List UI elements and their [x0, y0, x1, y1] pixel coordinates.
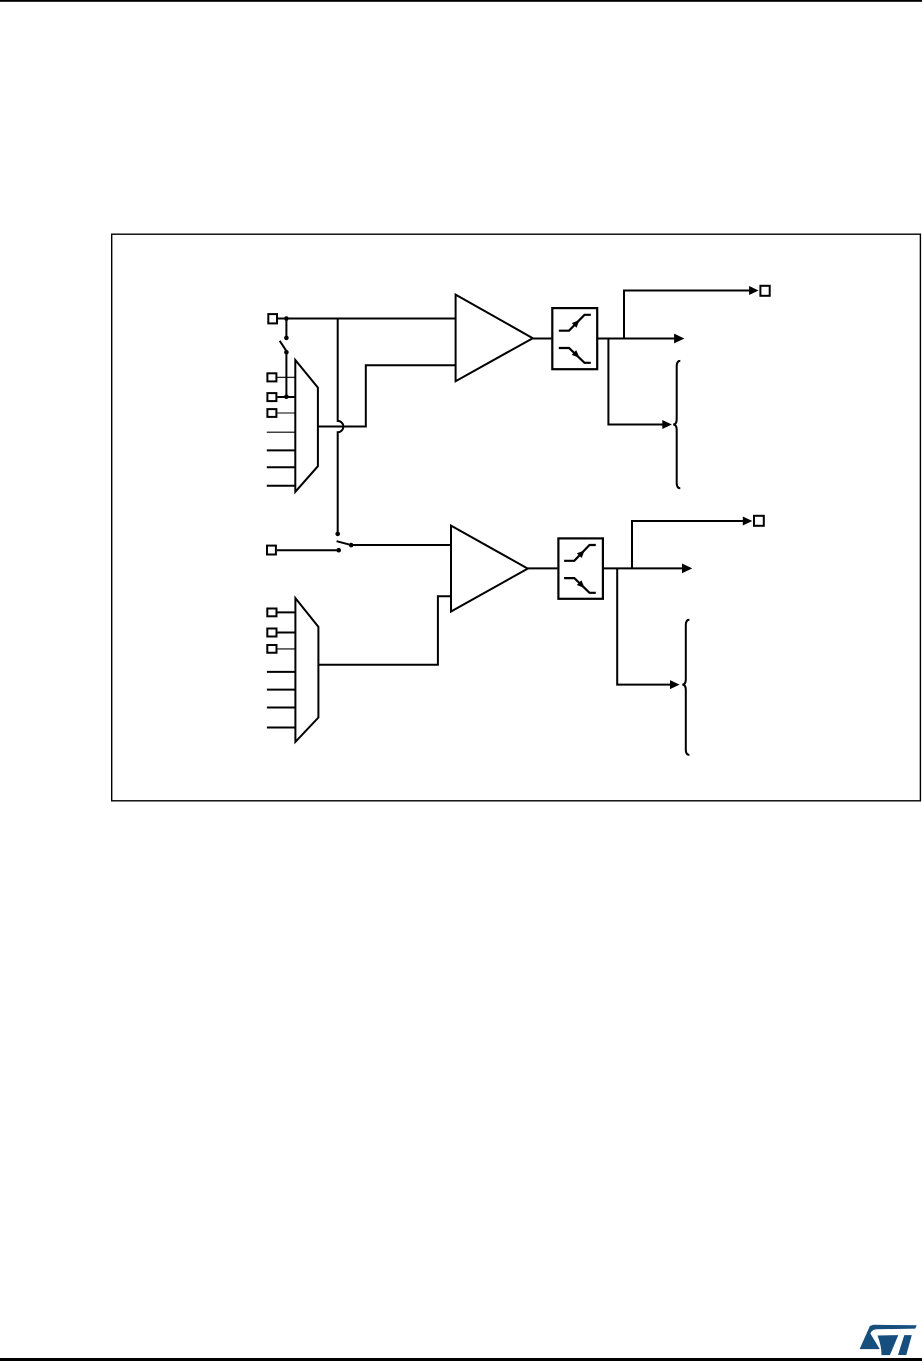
wire COMP2 output [528, 567, 558, 569]
wire COMP2 down branch [617, 568, 670, 684]
wire U2 output [603, 567, 683, 569]
multiplexer MUX2 [295, 598, 318, 742]
node junction dot on mux input B [284, 394, 289, 399]
brace COMP1 destinations [673, 361, 680, 488]
ST logo swoosh S [860, 1325, 917, 1349]
wire COMP2 plus link (vertical with hop) [338, 319, 344, 534]
arrow COMP1 internal output [674, 334, 684, 344]
wire mux2 input E [267, 689, 296, 691]
wire mux1 input G [267, 485, 296, 487]
brace COMP2 destinations [682, 620, 689, 755]
pin mux1 input C pad [267, 409, 276, 417]
wire COMP1 output [533, 338, 552, 340]
wire mux2 input D [267, 671, 296, 673]
pin mux2 input B pad [267, 629, 276, 637]
switch SW2 blade [337, 541, 351, 545]
switch SW1 upper contact dot [284, 336, 289, 341]
wire COMP1 output to pad (up branch) [624, 291, 750, 339]
arrow to COMP1 output pad [749, 286, 759, 295]
falling hysteresis curve [559, 348, 591, 363]
wire mux2 input A [278, 611, 296, 613]
wire mux1 input E [267, 449, 296, 451]
switch SW1 blade [280, 341, 287, 352]
op-amp COMP1 [456, 295, 533, 382]
falling hysteresis curve 2 [564, 578, 596, 593]
pin mux1 input A pad [267, 373, 276, 381]
wire mux1 output to COMP1 minus input [318, 365, 456, 426]
hysteresis block U2 [558, 538, 603, 598]
node junction dot [284, 316, 289, 321]
arrow COMP2 internal output [682, 564, 692, 574]
wire mux1 input D [267, 431, 296, 433]
switch SW1 lower contact dot [284, 350, 289, 355]
page footer rule [0, 1358, 922, 1361]
ST logo S lower stroke [878, 1335, 899, 1355]
rising hysteresis curve [559, 315, 591, 331]
hysteresis block U1 [552, 308, 597, 369]
wire mux1 input F [267, 466, 296, 468]
wire switch lower lead [285, 352, 287, 396]
wire mux2 input B [278, 632, 296, 634]
pin COMP2 output pad [754, 516, 764, 526]
wire COMP2 output to pad (up branch) [632, 521, 744, 568]
wire COMP1 down branch [608, 339, 663, 425]
falling curve arrowhead [572, 350, 580, 358]
wire switch upper lead [285, 319, 287, 338]
multiplexer MUX1 [295, 360, 318, 492]
switch SW2 upper contact dot [335, 532, 340, 537]
wire mux2 input F [267, 707, 296, 709]
pin PA3 (COMP2 plus input pad) [267, 546, 276, 555]
rising curve arrowhead [572, 320, 580, 328]
wire mux1 input A [277, 376, 295, 378]
rising hysteresis curve 2 [564, 545, 596, 561]
arrow to COMP2 output pad [743, 517, 753, 526]
page header rule [0, 0, 922, 2]
arrow COMP2 down branch [670, 680, 680, 689]
wire SW2 to COMP2 plus input [351, 544, 451, 546]
pin mux2 input C pad [267, 645, 276, 653]
switch SW2 lower contact dot [336, 548, 341, 553]
wire mux2 output to COMP2 minus input [318, 596, 451, 664]
switch SW2 pivot dot [349, 543, 354, 548]
wire mux1 input C [277, 412, 295, 414]
wire mux1 input B [277, 396, 295, 398]
op-amp COMP2 [451, 526, 528, 612]
wire mux2 input G [267, 727, 296, 729]
ST logo T slash [898, 1335, 912, 1355]
pin PA0 (COMP1 plus input pad) [268, 314, 277, 323]
falling curve arrowhead 2 [577, 580, 585, 588]
rising curve arrowhead 2 [577, 550, 585, 558]
wire pin to switch SW2 [277, 549, 339, 551]
wire pin to COMP1 plus input [278, 318, 456, 320]
pin mux2 input A pad [267, 609, 276, 617]
arrow COMP1 down branch [662, 420, 672, 429]
wire U1 output [597, 338, 675, 340]
wire mux2 input C [278, 648, 296, 650]
pin mux1 input B pad [267, 393, 276, 401]
pin COMP1 output pad [760, 286, 769, 296]
figure frame [112, 234, 921, 801]
